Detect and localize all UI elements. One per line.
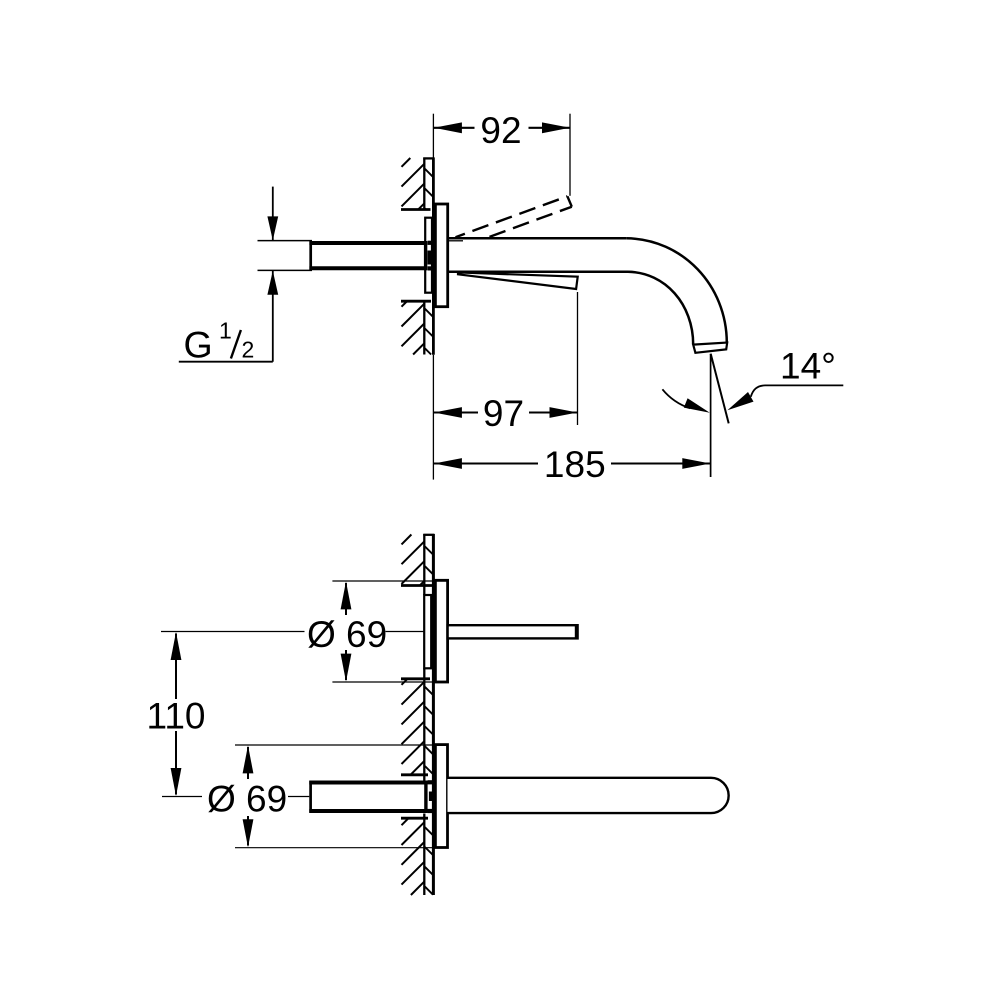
dimension 110 line segments bbox=[175, 634, 177, 700]
dimension 92 extension line right bbox=[569, 114, 571, 196]
dimension 92 line right part bbox=[529, 127, 571, 129]
dimension 97 extension line right (lever tip) bbox=[577, 292, 579, 425]
spout outlet face bbox=[693, 343, 727, 353]
nipple hidden dash middle bbox=[428, 251, 432, 265]
lever handle raised dashed tip bbox=[567, 196, 571, 206]
svg-text:Ø 69: Ø 69 bbox=[307, 614, 387, 655]
supply pipe top line bbox=[258, 240, 313, 242]
svg-text:92: 92 bbox=[480, 110, 521, 151]
G half slash bbox=[231, 330, 241, 359]
spout tube (plan view) bbox=[448, 778, 729, 813]
nipple hidden dash top bbox=[428, 241, 434, 245]
lever handle raised dashed line lower bbox=[490, 207, 572, 237]
wall inner line lower segment (side view) bbox=[423, 301, 425, 355]
upper dia69 dim line segments bbox=[345, 583, 347, 615]
spout top line bbox=[448, 237, 627, 240]
spout nipple (plan view) bbox=[310, 781, 427, 813]
upper dia69 arrow up bbox=[341, 581, 352, 609]
lower dia69 dim line segments bbox=[247, 747, 249, 779]
dimension 185 arrow right bbox=[682, 458, 710, 469]
wall hatch lower zone (side view) bbox=[402, 302, 434, 355]
wall face line (side view) bbox=[432, 158, 435, 355]
wall top cap (plan view) bbox=[423, 534, 434, 536]
dimension 92 arrow right bbox=[542, 122, 570, 133]
14 degree leader line bbox=[751, 385, 844, 396]
G half leader horizontal bbox=[179, 361, 273, 363]
upper dia69 arrow down bbox=[341, 654, 352, 682]
dimension 92 arrow left bbox=[434, 122, 462, 133]
dimension 97 line right part bbox=[529, 411, 578, 413]
G half dim upper arrow bbox=[267, 216, 278, 240]
G half dim upper arrow line bbox=[272, 187, 274, 240]
G half dim lower arrow line bbox=[272, 271, 274, 362]
dimension 110 arrow down bbox=[171, 768, 182, 796]
lever stem end step bbox=[575, 625, 577, 638]
hatch stop line C top (plan view) bbox=[401, 817, 428, 820]
spout nipple hidden dash top bbox=[428, 780, 435, 784]
dimension 92 line left part bbox=[434, 127, 475, 129]
dimension 97 arrow right bbox=[550, 407, 578, 418]
wall inner line segments (plan view) bbox=[423, 534, 425, 595]
hatch stop line A bottom (plan view) bbox=[401, 584, 432, 587]
escutcheon rosette (side view) bbox=[435, 204, 447, 307]
lever stem (plan view) bbox=[448, 625, 578, 638]
threaded nipple (side view) bbox=[310, 242, 427, 270]
wall hatch zone C (plan view) bbox=[402, 818, 434, 895]
dimension 97 line left part bbox=[434, 411, 478, 413]
hatch stop line B bottom (plan view) bbox=[401, 773, 428, 776]
supply pipe bottom line bbox=[258, 269, 313, 271]
spout bottom line bbox=[448, 271, 628, 274]
wall top cap (side view) bbox=[423, 157, 434, 159]
wall hatch upper zone (side view) bbox=[402, 158, 434, 210]
spout inner curve bbox=[628, 272, 693, 345]
wall hatch zone B (plan view) bbox=[402, 679, 434, 775]
svg-text:1: 1 bbox=[219, 318, 232, 344]
spout nipple hidden dash bottom bbox=[428, 809, 435, 813]
spout escutcheon (plan view) bbox=[435, 745, 447, 848]
extension line wall face bbox=[432, 114, 434, 158]
valve centerline bbox=[161, 631, 305, 633]
spout tip vertical extension line bbox=[710, 354, 712, 477]
14 degree leader arrow bbox=[727, 392, 753, 410]
concealed valve body box (plan view) bbox=[424, 595, 431, 668]
valve escutcheon (plan view) bbox=[435, 580, 447, 682]
spout root step line bbox=[449, 240, 463, 242]
G half dim lower arrow bbox=[267, 271, 278, 295]
svg-text:Ø 69: Ø 69 bbox=[207, 779, 287, 820]
lower dia69 arrow down bbox=[243, 819, 254, 847]
spout outer curve bbox=[626, 238, 727, 343]
lever handle raised dashed line upper bbox=[456, 196, 568, 237]
hatch stop line upper (side view) bbox=[401, 208, 431, 211]
14 degree arc bbox=[662, 389, 690, 408]
hatch stop line B top (plan view) bbox=[401, 677, 430, 680]
wall hatch zone A (plan view) bbox=[402, 535, 434, 586]
lower dia69 arrow up bbox=[243, 745, 254, 773]
svg-text:97: 97 bbox=[483, 393, 524, 434]
dimension 97 arrow left bbox=[434, 407, 462, 418]
nipple hidden dash bottom bbox=[428, 266, 434, 270]
wall face line (plan view) bbox=[432, 534, 435, 895]
upper dia69 extension bottom bbox=[332, 681, 447, 683]
lower dia69 extension bottom bbox=[235, 847, 448, 849]
14 degree arc arrow bbox=[684, 398, 710, 412]
lever handle horizontal (side view) bbox=[458, 272, 578, 289]
concealed body box (side view) bbox=[425, 218, 432, 293]
svg-text:2: 2 bbox=[242, 337, 255, 363]
lower dia69 extension top bbox=[235, 744, 448, 746]
dimension 185 arrow left bbox=[434, 458, 462, 469]
svg-text:110: 110 bbox=[147, 696, 206, 737]
hatch stop line lower (side view) bbox=[401, 300, 431, 303]
dimension 110 arrow up bbox=[171, 632, 182, 660]
svg-text:185: 185 bbox=[544, 444, 606, 485]
wall inner line upper segment (side view) bbox=[423, 158, 425, 210]
14 degree slanted line bbox=[711, 354, 729, 424]
dimension 185 line right part bbox=[611, 462, 710, 464]
svg-text:G: G bbox=[184, 324, 213, 366]
svg-text:14°: 14° bbox=[780, 346, 836, 387]
upper dia69 extension top bbox=[332, 580, 447, 582]
spout centerline bbox=[162, 796, 202, 798]
dimension 185 line left part bbox=[434, 462, 538, 464]
spout nipple hidden dash middle bbox=[429, 792, 433, 802]
